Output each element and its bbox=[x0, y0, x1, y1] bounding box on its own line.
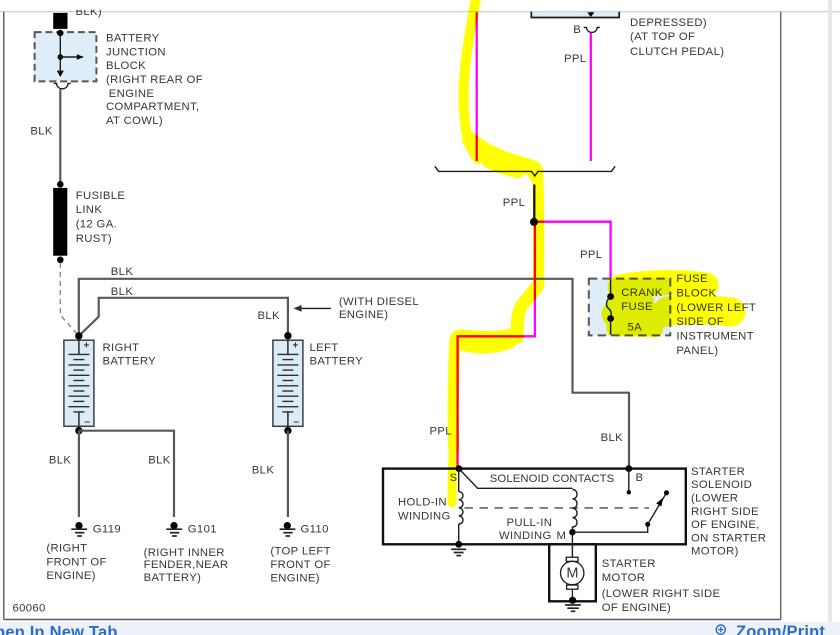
svg-text:–: – bbox=[85, 416, 91, 427]
label LEFT BATTERY bbox=[310, 342, 364, 367]
svg-text:HOLD-IN: HOLD-IN bbox=[398, 497, 447, 509]
svg-text:G101: G101 bbox=[188, 523, 217, 535]
svg-text:BLK: BLK bbox=[30, 126, 53, 138]
node right battery negative bbox=[75, 427, 82, 434]
svg-text:ENGINE): ENGINE) bbox=[270, 573, 320, 585]
node left battery negative bbox=[284, 427, 291, 434]
label PULL-IN WINDING bbox=[499, 517, 552, 542]
svg-text:FRONT OF: FRONT OF bbox=[270, 559, 330, 571]
highlighter stroke (clutch feed down to solenoid S) bbox=[452, 0, 731, 503]
svg-text:(12 GA.: (12 GA. bbox=[76, 219, 117, 231]
svg-text:G110: G110 bbox=[301, 523, 329, 535]
svg-text:Zoom/Print: Zoom/Print bbox=[736, 623, 825, 635]
ground G110 bbox=[280, 522, 329, 536]
svg-text:B: B bbox=[573, 24, 581, 36]
label (TOP LEFT FRONT OF ENGINE) bbox=[270, 546, 330, 585]
svg-text:G119: G119 bbox=[93, 523, 121, 535]
bottom toolbar strip bbox=[0, 622, 840, 635]
clutch switch (cut off at top) bbox=[531, 12, 619, 18]
svg-text:INSTRUMENT: INSTRUMENT bbox=[676, 331, 754, 343]
label HOLD-IN WINDING bbox=[398, 497, 451, 523]
svg-text:ENGINE): ENGINE) bbox=[46, 570, 96, 582]
wire M to contact arm pivot bbox=[572, 524, 647, 532]
svg-text:(AT TOP OF: (AT TOP OF bbox=[630, 31, 695, 43]
svg-text:BLK: BLK bbox=[49, 455, 72, 467]
svg-text:BATTERY: BATTERY bbox=[310, 356, 364, 368]
node right battery positive bbox=[75, 332, 82, 339]
left battery B2 bbox=[273, 340, 303, 427]
connector symbol below junction block bbox=[54, 83, 71, 88]
wire BLK to left battery bbox=[79, 298, 288, 336]
svg-text:WINDING: WINDING bbox=[398, 511, 451, 523]
svg-text:+: + bbox=[84, 340, 90, 351]
svg-text:(LOWER RIGHT SIDE: (LOWER RIGHT SIDE bbox=[602, 588, 721, 600]
svg-text:DEPRESSED): DEPRESSED) bbox=[630, 17, 707, 29]
wire PPL to crank fuse bbox=[534, 222, 611, 279]
junction node below fusible link bbox=[57, 257, 64, 264]
ground G101 bbox=[166, 522, 217, 536]
label (RIGHT FRONT OF ENGINE) bbox=[46, 543, 106, 583]
svg-text:MOTOR): MOTOR) bbox=[691, 546, 739, 558]
svg-text:(RIGHT INNER: (RIGHT INNER bbox=[144, 547, 225, 559]
svg-text:RIGHT: RIGHT bbox=[103, 342, 140, 354]
junction node PPL splice bbox=[530, 218, 538, 226]
svg-text:–: – bbox=[294, 416, 300, 427]
svg-text:M: M bbox=[557, 530, 567, 542]
fusible link (top, cut off) bbox=[53, 13, 67, 29]
viewer bottom border bbox=[4, 619, 781, 621]
contact arm pivot node bbox=[645, 522, 650, 527]
dashed wire from fusible link to right battery bbox=[60, 263, 77, 335]
ground (solenoid case) bbox=[451, 549, 466, 555]
svg-text:BATTERY: BATTERY bbox=[103, 356, 157, 368]
svg-text:BLK: BLK bbox=[601, 432, 624, 444]
viewer top border bbox=[0, 11, 840, 13]
svg-text:FENDER,NEAR: FENDER,NEAR bbox=[144, 559, 229, 571]
ground G119 bbox=[71, 522, 121, 536]
splice brace bbox=[435, 166, 615, 176]
battery junction block C2 bbox=[35, 30, 97, 82]
svg-text:BATTERY: BATTERY bbox=[106, 33, 160, 45]
svg-text:RUST): RUST) bbox=[76, 233, 112, 245]
svg-text:FUSIBLE: FUSIBLE bbox=[76, 190, 126, 202]
label STARTER SOLENOID (LOWER RIGHT SIDE OF ENGINE, ON STARTER MOTOR) bbox=[691, 466, 766, 558]
svg-text:LEFT: LEFT bbox=[310, 342, 339, 354]
fuse block (dashed box) bbox=[589, 279, 671, 336]
svg-text:BLK: BLK bbox=[252, 464, 275, 476]
svg-text:CLUTCH PEDAL): CLUTCH PEDAL) bbox=[630, 46, 724, 58]
connector pin B symbol bbox=[584, 27, 600, 32]
svg-text:(TOP LEFT: (TOP LEFT bbox=[270, 546, 330, 558]
crank fuse 5A bbox=[606, 279, 614, 335]
node solenoid terminal M bbox=[569, 529, 575, 535]
solenoid contact arm (switch) bbox=[648, 490, 669, 524]
fusible link F1 (12 GA. RUST) bbox=[53, 188, 67, 256]
svg-text:BLK: BLK bbox=[111, 286, 134, 298]
svg-text:LINK: LINK bbox=[76, 204, 103, 216]
svg-text:STARTER: STARTER bbox=[691, 466, 745, 478]
svg-text:AT COWL): AT COWL) bbox=[106, 115, 163, 127]
label RIGHT BATTERY bbox=[103, 342, 157, 367]
viewer left border bbox=[3, 12, 5, 620]
svg-text:60060: 60060 bbox=[13, 602, 46, 614]
wire PPL from clutch switch B bbox=[590, 33, 592, 161]
node hold-in winding to case ground bbox=[455, 541, 462, 548]
svg-text:(RIGHT REAR OF: (RIGHT REAR OF bbox=[106, 74, 203, 86]
scrollbar track line bbox=[828, 0, 832, 635]
node solenoid terminal S bbox=[456, 465, 463, 472]
svg-text:(RIGHT: (RIGHT bbox=[46, 543, 87, 555]
svg-text:(LOWER: (LOWER bbox=[691, 493, 738, 505]
svg-text:FRONT OF: FRONT OF bbox=[46, 556, 106, 568]
label FUSE BLOCK (LOWER LEFT SIDE OF INSTRUMENT PANEL) bbox=[676, 273, 756, 357]
svg-text:M: M bbox=[566, 566, 578, 582]
svg-text:PULL-IN: PULL-IN bbox=[507, 517, 553, 529]
starter solenoid box bbox=[383, 469, 686, 545]
link Zoom/Print bbox=[716, 623, 825, 635]
right battery B1 bbox=[64, 340, 94, 427]
svg-text:STARTER: STARTER bbox=[602, 558, 656, 570]
label FUSIBLE LINK (12 GA. RUST) bbox=[76, 190, 126, 245]
svg-text:ON STARTER: ON STARTER bbox=[691, 532, 766, 544]
wire BLK left battery to G110 bbox=[287, 431, 289, 517]
svg-text:(WITH DIESEL: (WITH DIESEL bbox=[339, 296, 419, 308]
svg-text:SOLENOID: SOLENOID bbox=[691, 479, 752, 491]
viewer right border bbox=[780, 12, 782, 620]
svg-text:COMPARTMENT,: COMPARTMENT, bbox=[106, 101, 200, 113]
svg-text:ENGINE: ENGINE bbox=[109, 88, 155, 100]
svg-text:BLK: BLK bbox=[258, 310, 281, 322]
starter motor box bbox=[549, 544, 596, 601]
svg-text:Open In New Tab: Open In New Tab bbox=[0, 624, 118, 635]
svg-text:MOTOR: MOTOR bbox=[602, 572, 646, 584]
pull-in winding L2 bbox=[572, 490, 577, 533]
svg-text:PPL: PPL bbox=[564, 53, 586, 65]
label BATTERY JUNCTION BLOCK bbox=[106, 33, 203, 127]
svg-text:PANEL): PANEL) bbox=[676, 345, 718, 357]
node starter motor ground bbox=[569, 597, 576, 604]
svg-text:OF ENGINE): OF ENGINE) bbox=[602, 602, 671, 614]
svg-text:+: + bbox=[293, 340, 299, 351]
ground (starter motor) bbox=[565, 605, 581, 611]
wire BLK right battery to G101 bbox=[79, 431, 174, 517]
wire PPL left branch (highlighted) bbox=[476, 12, 478, 161]
label CRANK FUSE 5A bbox=[621, 287, 662, 333]
hold-in winding L1 bbox=[459, 469, 463, 545]
svg-text:BLOCK: BLOCK bbox=[106, 60, 146, 72]
svg-text:ENGINE): ENGINE) bbox=[339, 309, 389, 321]
svg-text:RIGHT SIDE: RIGHT SIDE bbox=[691, 506, 759, 518]
junction node above fusible link bbox=[57, 181, 64, 188]
wire B to fixed contact bbox=[628, 469, 630, 493]
svg-text:B: B bbox=[636, 472, 644, 484]
mechanical link (dashed) bbox=[465, 507, 650, 509]
svg-text:OF ENGINE,: OF ENGINE, bbox=[691, 519, 760, 531]
wire BLK from junction block to fusible link bbox=[59, 89, 61, 184]
svg-text:PPL: PPL bbox=[580, 249, 602, 261]
wire S to pull-in winding bbox=[459, 469, 573, 489]
wire BLK right battery to G119 bbox=[78, 431, 80, 517]
wire PPL splice to solenoid S (highlighted) bbox=[458, 222, 535, 468]
svg-text:BATTERY): BATTERY) bbox=[144, 572, 202, 584]
svg-text:SOLENOID CONTACTS: SOLENOID CONTACTS bbox=[490, 473, 615, 485]
svg-text:PPL: PPL bbox=[503, 197, 525, 209]
svg-text:JUNCTION: JUNCTION bbox=[106, 46, 166, 58]
svg-text:BLK: BLK bbox=[148, 455, 171, 467]
arrow (WITH DIESEL ENGINE) bbox=[293, 296, 419, 321]
node fixed contact bbox=[627, 490, 631, 494]
label DEPRESSED) (AT TOP OF CLUTCH PEDAL) bbox=[630, 17, 724, 58]
wire BLK battery positive to solenoid B (long run) bbox=[79, 279, 629, 469]
wire M to starter motor bbox=[571, 532, 573, 557]
svg-text:BLK: BLK bbox=[111, 266, 134, 278]
starter motor M1 bbox=[561, 557, 584, 600]
cut-off label BLK) at top bbox=[68, 0, 112, 18]
node solenoid terminal B bbox=[625, 465, 632, 472]
node left battery positive bbox=[284, 332, 291, 339]
label STARTER MOTOR (LOWER RIGHT SIDE OF ENGINE) bbox=[602, 558, 721, 614]
label (RIGHT INNER FENDER,NEAR BATTERY) bbox=[144, 547, 229, 584]
wire PPL from splice bbox=[533, 185, 535, 219]
svg-text:WINDING: WINDING bbox=[499, 530, 552, 542]
